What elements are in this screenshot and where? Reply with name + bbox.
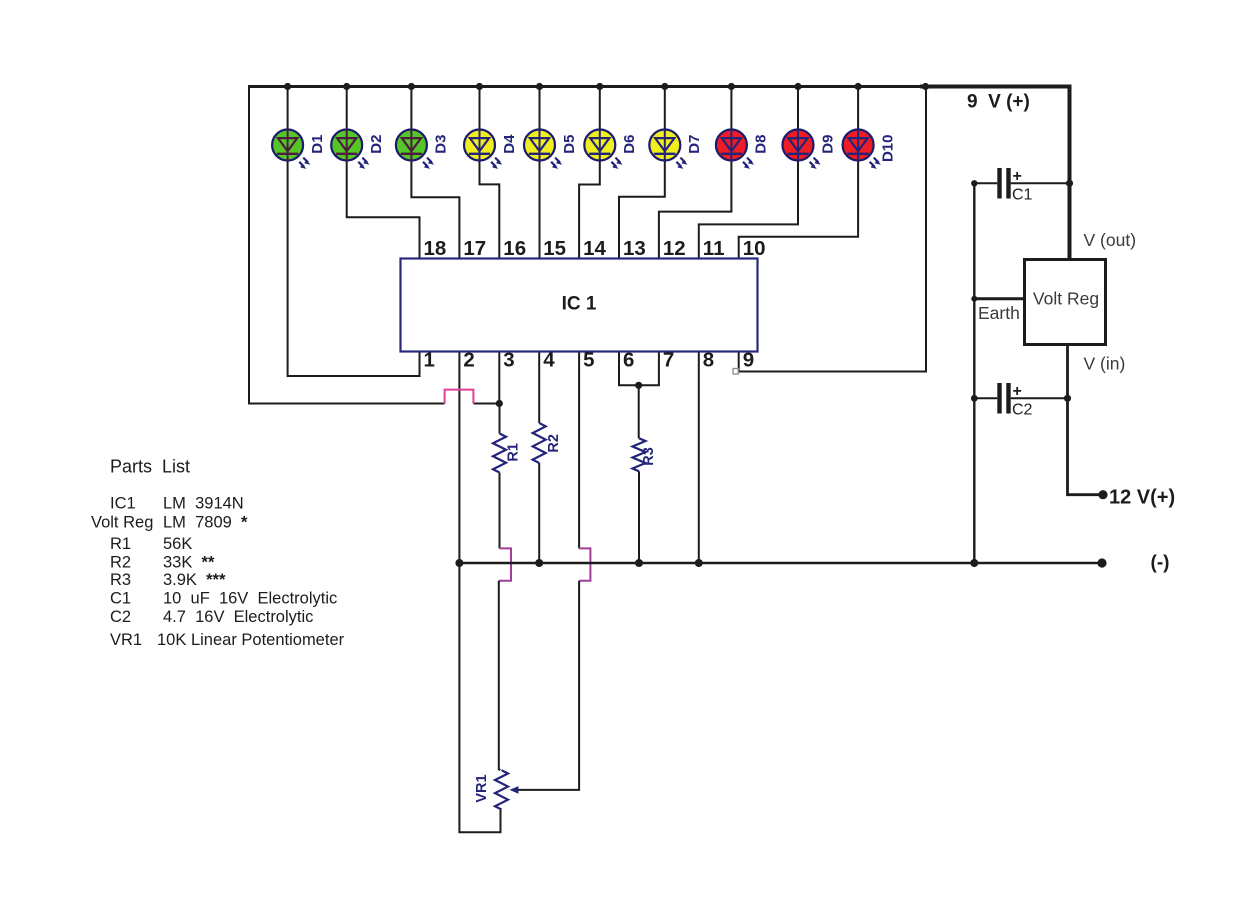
svg-text:(-): (-) — [1151, 553, 1170, 574]
wire LED D1 anode riser — [287, 87, 289, 132]
svg-text:D10: D10 — [879, 135, 896, 163]
node bus junction D6 — [596, 83, 603, 90]
wire R1 bottom lead to hop — [499, 473, 501, 549]
svg-text:D3: D3 — [433, 135, 450, 154]
resistor R2 — [533, 423, 546, 463]
LED D10 — [843, 130, 881, 169]
wire D8 cathode to pin 12 — [659, 159, 732, 259]
svg-text:Volt Reg: Volt Reg — [1033, 289, 1099, 309]
svg-text:+: + — [1013, 168, 1022, 185]
LED D3 — [396, 130, 434, 169]
svg-text:D4: D4 — [501, 134, 518, 154]
wire R1 top lead — [499, 404, 501, 434]
LED D5 — [524, 130, 562, 169]
wire D10 cathode to pin 10 — [739, 159, 858, 259]
svg-text:D5: D5 — [561, 135, 578, 154]
svg-text:2: 2 — [463, 349, 474, 372]
wire R2 bottom lead — [538, 463, 540, 563]
node bus junction D10 — [855, 83, 862, 90]
wire pin 3 stub — [498, 352, 500, 404]
svg-text:8: 8 — [703, 349, 714, 372]
LED D9 — [783, 130, 821, 169]
svg-text:3: 3 — [503, 349, 514, 372]
wire LED D4 anode riser — [479, 87, 481, 132]
svg-text:R2: R2 — [546, 434, 562, 453]
node 12V terminal — [1098, 490, 1107, 499]
svg-text:V (out): V (out) — [1084, 230, 1137, 250]
svg-text:6: 6 — [623, 349, 634, 372]
svg-text:15: 15 — [543, 237, 566, 260]
wire D5 cathode to pin 15 — [539, 159, 541, 259]
wire LED D8 anode riser — [730, 87, 732, 132]
svg-text:11: 11 — [703, 237, 725, 260]
wire VR1 top lead — [498, 581, 500, 771]
node (-) terminal — [1097, 558, 1106, 567]
svg-text:Parts List: Parts List — [110, 457, 190, 477]
wire R3 top lead — [638, 385, 640, 438]
svg-text:D2: D2 — [368, 135, 385, 154]
node pin3 / R1 junction — [496, 400, 503, 407]
wire D6 cathode to pin 14 — [579, 159, 600, 259]
wire D1 cathode to pin 1 — [288, 159, 420, 377]
node (-) bus junction pin8 — [695, 559, 703, 567]
svg-text:17: 17 — [463, 237, 486, 260]
LED D4 — [464, 130, 502, 169]
node C1 left — [971, 180, 977, 186]
capacitor C2 — [974, 397, 997, 399]
node bus junction D2 — [343, 83, 350, 90]
voltage regulator U (Volt Reg) box — [1025, 260, 1106, 345]
wire D9 cathode to pin 11 — [699, 159, 798, 259]
wire pin6-pin7 tie — [618, 384, 660, 386]
LED D2 — [331, 130, 369, 169]
wire D2 cathode to pin 18 — [347, 159, 420, 259]
svg-text:LM 3914N: LM 3914N — [163, 495, 244, 513]
svg-text:D8: D8 — [753, 135, 770, 154]
wire crossover hop R1/VR1 over (-) bus — [499, 548, 511, 580]
svg-text:LM 7809 *: LM 7809 * — [163, 514, 248, 532]
svg-text:10 uF 16V Electrolytic: 10 uF 16V Electrolytic — [163, 590, 337, 608]
svg-text:R2: R2 — [110, 554, 131, 572]
svg-text:VR1: VR1 — [110, 631, 142, 649]
svg-text:4: 4 — [543, 349, 555, 372]
wire pin 2 to VR1 bottom — [459, 352, 500, 833]
resistor R3 — [633, 438, 646, 471]
svg-text:1: 1 — [424, 349, 435, 372]
svg-text:D6: D6 — [621, 135, 638, 154]
node C2 left — [971, 395, 978, 402]
wire pin 8 to (-) bus — [698, 352, 700, 564]
svg-text:10K Linear Potentiometer: 10K Linear Potentiometer — [157, 631, 345, 649]
svg-text:13: 13 — [623, 237, 646, 260]
wire LED D10 anode riser — [857, 87, 859, 132]
node (-) bus junction pin2 — [455, 559, 463, 567]
wire pin 9 to 9V bus — [739, 87, 926, 372]
svg-text:C1: C1 — [1012, 187, 1033, 204]
svg-text:Earth: Earth — [978, 303, 1020, 323]
wire D4 cathode to pin 16 — [480, 159, 500, 259]
svg-text:16: 16 — [503, 237, 526, 260]
LED D7 — [649, 130, 687, 169]
svg-text:D9: D9 — [819, 135, 836, 154]
svg-text:+: + — [1013, 383, 1022, 400]
svg-text:R1: R1 — [506, 443, 522, 462]
node pin6/7 junction — [635, 382, 642, 389]
svg-text:5: 5 — [583, 349, 594, 372]
svg-text:C2: C2 — [1012, 402, 1033, 419]
svg-text:C2: C2 — [110, 608, 131, 626]
wire pin 5 down to hop — [578, 352, 580, 549]
svg-text:D1: D1 — [309, 135, 326, 154]
svg-text:D7: D7 — [686, 135, 703, 154]
VR1 wiper arrowhead — [510, 786, 519, 794]
svg-text:10: 10 — [743, 237, 766, 260]
svg-text:Volt Reg: Volt Reg — [91, 514, 153, 532]
svg-text:56K: 56K — [163, 535, 192, 553]
wire V(out) riser — [1068, 85, 1072, 260]
svg-text:3.9K ***: 3.9K *** — [163, 571, 226, 589]
op-amp/driver IC1 box — [401, 259, 758, 352]
wire D7 cathode to pin 13 — [619, 159, 665, 259]
node C2 right junction — [1064, 395, 1071, 402]
svg-text:9 V (+): 9 V (+) — [967, 92, 1030, 113]
LED D8 — [716, 130, 754, 169]
wire D3 cathode to pin 17 — [411, 159, 459, 259]
svg-text:IC 1: IC 1 — [562, 294, 597, 315]
svg-text:R1: R1 — [110, 535, 131, 553]
wire V(in) leg — [1068, 344, 1104, 495]
svg-text:VR1: VR1 — [474, 774, 490, 802]
node bus junction D9 — [794, 83, 801, 90]
node bus junction D1 — [284, 83, 291, 90]
LED D6 — [584, 130, 622, 169]
svg-text:R3: R3 — [641, 447, 657, 466]
node bus junction D3 — [408, 83, 415, 90]
node (-) bus junction R2 — [535, 559, 543, 567]
wire R3 bottom lead — [638, 471, 640, 563]
wire pin 7 stub — [658, 352, 660, 386]
wire LED D6 anode riser — [599, 87, 601, 132]
node C1 right junction — [1066, 180, 1073, 187]
wire pin 5 to VR1 wiper — [516, 581, 579, 790]
wire crossover hop V+ over pin2 wire — [445, 390, 474, 404]
wire (-) bus — [459, 562, 1102, 565]
svg-text:IC1: IC1 — [110, 495, 136, 513]
node earth junction — [971, 296, 977, 302]
wire left V+ drop to pin 3 node — [249, 85, 445, 404]
svg-text:4.7 16V Electrolytic: 4.7 16V Electrolytic — [163, 608, 313, 626]
wire LED D9 anode riser — [797, 87, 799, 132]
node bus junction D5 — [536, 83, 543, 90]
node bus junction D7 — [661, 83, 668, 90]
LED D1 — [272, 130, 310, 169]
svg-text:12: 12 — [663, 237, 686, 260]
svg-text:18: 18 — [424, 237, 447, 260]
wire LED D2 anode riser — [346, 87, 348, 132]
wire Earth to regulator — [974, 297, 1025, 300]
wire crossover hop pin5 over (-) bus — [579, 548, 590, 580]
node (-) bus junction earth leg — [970, 559, 978, 567]
wire LED D7 anode riser — [664, 87, 666, 132]
svg-text:9: 9 — [743, 349, 754, 372]
wire LED D5 anode riser — [539, 87, 541, 132]
svg-text:14: 14 — [583, 237, 606, 260]
wire earth/filter left leg — [973, 183, 975, 563]
svg-text:C1: C1 — [110, 590, 131, 608]
node (-) bus junction R3 — [635, 559, 643, 567]
node bus junction D8 — [728, 83, 735, 90]
capacitor C1 — [974, 182, 997, 184]
wire LED D3 anode riser — [410, 87, 412, 132]
node bus junction pin9 riser — [922, 83, 929, 90]
node pin9 corner marker — [733, 369, 739, 375]
wire pin 6 stub — [618, 352, 620, 386]
node bus junction D4 — [476, 83, 483, 90]
svg-text:7: 7 — [663, 349, 674, 372]
svg-text:33K **: 33K ** — [163, 554, 215, 572]
wire top 9V bus — [248, 85, 921, 88]
svg-text:12 V(+): 12 V(+) — [1109, 487, 1175, 509]
svg-text:R3: R3 — [110, 571, 131, 589]
potentiometer VR1 — [495, 770, 508, 809]
resistor R1 — [493, 434, 506, 473]
wire pin 4 to R2 — [538, 352, 540, 424]
svg-text:V (in): V (in) — [1084, 354, 1126, 374]
